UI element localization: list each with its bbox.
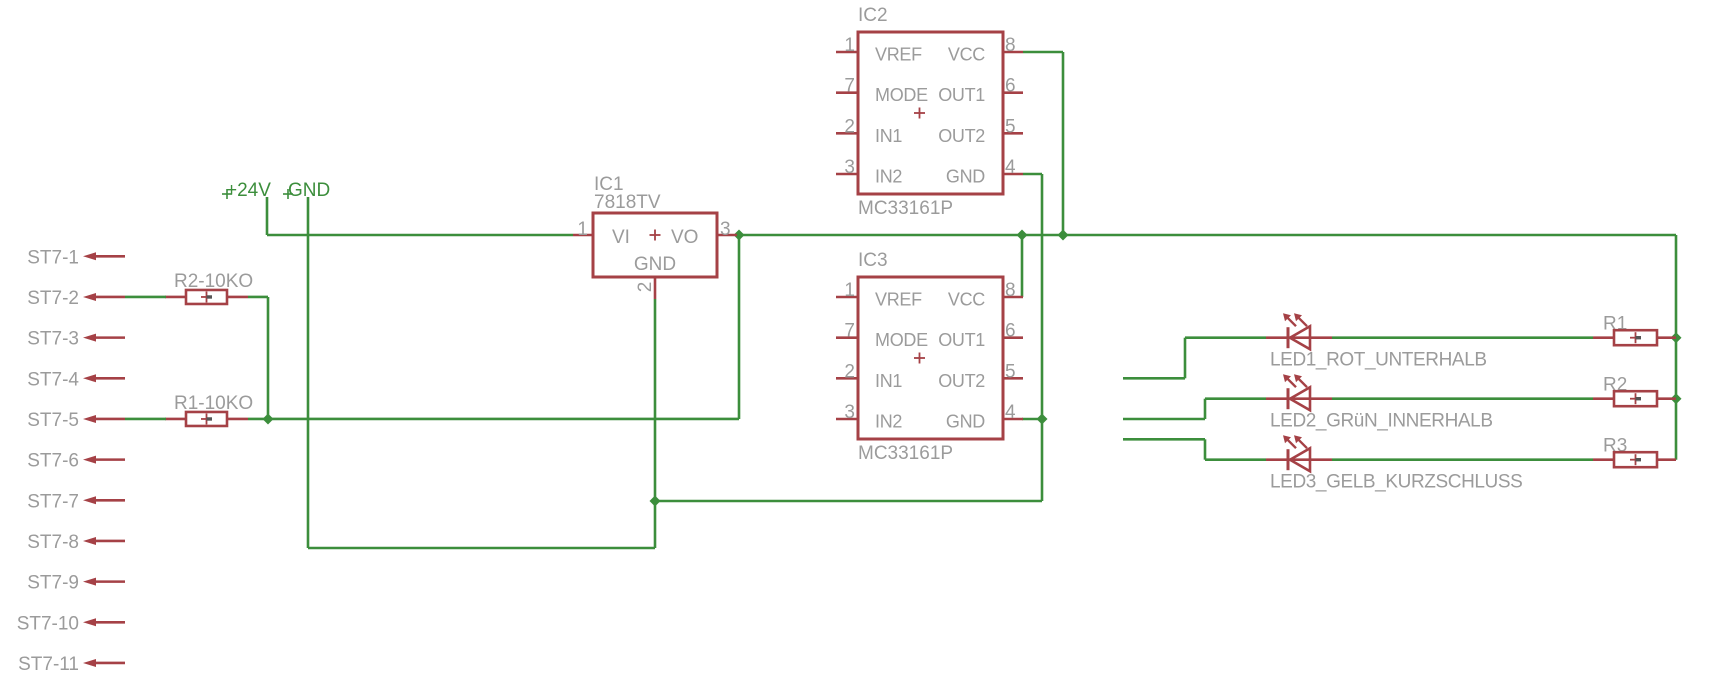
svg-text:+24V: +24V [226, 180, 271, 201]
svg-text:GND: GND [946, 167, 985, 187]
connector pin ST7-6 [27, 451, 125, 472]
IC3 pin 1 [836, 280, 858, 301]
wire right bus down [1675, 235, 1678, 460]
wire GND bottom run [308, 547, 655, 550]
connector pin ST7-11 [18, 654, 125, 675]
connector pin ST7-1 [27, 247, 125, 268]
wire LED3 stub [1123, 438, 1205, 441]
wire LED2 riser [1204, 399, 1207, 419]
wire riser to VO line [738, 235, 741, 419]
svg-text:ST7-7: ST7-7 [27, 491, 79, 512]
svg-text:4: 4 [1005, 157, 1016, 178]
svg-text:7818TV: 7818TV [594, 192, 661, 213]
wire R2 out [248, 296, 268, 299]
svg-text:ST7-9: ST7-9 [27, 573, 79, 594]
IC1 pin 3 [717, 219, 737, 240]
svg-text:ST7-3: ST7-3 [27, 329, 79, 350]
svg-text:ST7-8: ST7-8 [27, 532, 79, 553]
svg-text:2: 2 [844, 116, 855, 137]
wire LED2 stub [1123, 418, 1205, 421]
IC3 pin 4 [1003, 402, 1023, 423]
svg-text:4: 4 [1005, 402, 1016, 423]
svg-text:VREF: VREF [875, 45, 922, 65]
wire R1 out to IC3 column [248, 418, 739, 421]
IC2 pin 4 [1003, 157, 1023, 178]
wire IC2 VCC riser [1062, 52, 1065, 235]
IC IC2 MC33161P [858, 5, 1003, 219]
wire IC2 GND stub link [1023, 173, 1042, 176]
IC2 pin 7 [836, 76, 858, 97]
resistor R1 [1593, 314, 1676, 346]
svg-text:VCC: VCC [948, 290, 985, 310]
svg-text:VREF: VREF [875, 290, 922, 310]
svg-text:3: 3 [844, 157, 855, 178]
svg-text:1: 1 [844, 280, 855, 301]
wire LED1 stub [1123, 377, 1185, 380]
IC2 pin 1 [836, 35, 858, 56]
svg-text:8: 8 [1005, 35, 1016, 56]
wire LED1 to R1 [1332, 336, 1593, 339]
connector pin ST7-9 [27, 573, 125, 594]
svg-text:7: 7 [844, 76, 855, 97]
wire VO bus to right edge [737, 234, 1676, 237]
junction bus R1 [1671, 332, 1682, 343]
svg-text:GND: GND [634, 254, 676, 275]
svg-text:ST7-2: ST7-2 [27, 288, 79, 309]
wire LED2 to R2 [1332, 397, 1593, 400]
IC3 pin 6 [1003, 321, 1023, 342]
IC3 pin 8 [1003, 280, 1023, 301]
connector pin ST7-8 [27, 532, 125, 553]
resistor R2-10KO [165, 271, 253, 304]
junction IC2 VCC riser [1058, 230, 1069, 241]
IC2 pin 5 [1003, 116, 1023, 137]
wire +24V to IC1 VI [267, 234, 573, 237]
wire ST7-5 to R1 [125, 418, 166, 421]
svg-text:7: 7 [844, 321, 855, 342]
svg-text:3: 3 [844, 402, 855, 423]
svg-text:MODE: MODE [875, 330, 928, 350]
wire GND riser IC2 pin4 to branch [1041, 174, 1044, 501]
wire IC2 VCC over [1023, 51, 1063, 54]
connector pin ST7-5 [27, 410, 125, 431]
svg-text:IN2: IN2 [875, 167, 902, 187]
IC3 pin 2 [836, 361, 858, 382]
svg-text:OUT2: OUT2 [938, 126, 985, 146]
svg-text:VCC: VCC [948, 45, 985, 65]
junction bus R2 [1671, 393, 1682, 404]
IC3 pin 7 [836, 321, 858, 342]
IC3 pin 3 [836, 402, 858, 423]
IC1 pin 2 [635, 277, 656, 299]
svg-text:LED3_GELB_KURZSCHLUSS: LED3_GELB_KURZSCHLUSS [1270, 472, 1522, 493]
IC1 pin 1 [573, 219, 593, 240]
svg-text:ST7-11: ST7-11 [18, 654, 79, 675]
svg-text:ST7-5: ST7-5 [27, 410, 79, 431]
wire LED1 riser [1184, 338, 1187, 379]
svg-text:IC3: IC3 [858, 250, 888, 271]
svg-text:ST7-1: ST7-1 [27, 247, 79, 268]
svg-text:MODE: MODE [875, 85, 928, 105]
svg-text:ST7-10: ST7-10 [17, 613, 79, 634]
wire LED3 riser [1204, 439, 1207, 459]
svg-text:5: 5 [1005, 116, 1016, 137]
junction GND branch [650, 496, 661, 507]
resistor R1-10KO [165, 393, 253, 426]
wire to LED2 [1205, 397, 1266, 400]
IC3 pin 5 [1003, 361, 1023, 382]
svg-text:IN2: IN2 [875, 412, 902, 432]
wire GND up to IC1 pin2 [654, 299, 657, 548]
svg-text:1: 1 [844, 35, 855, 56]
wire LED3 to R3 [1332, 458, 1593, 461]
resistor R3 [1593, 436, 1676, 468]
junction at IC1 VO [734, 230, 745, 241]
connector pin ST7-7 [27, 491, 125, 512]
svg-text:6: 6 [1005, 321, 1016, 342]
svg-text:ST7-4: ST7-4 [27, 369, 79, 390]
wire IC3 VCC riser [1021, 235, 1024, 297]
LED LED1 (LED1_ROT_UNTERHALB) [1266, 313, 1487, 371]
LED LED2 (LED2_GRüN_INNERHALB) [1266, 374, 1493, 432]
junction IC3 VCC riser [1017, 230, 1028, 241]
wire GND branch right [655, 500, 1042, 503]
svg-text:6: 6 [1005, 76, 1016, 97]
svg-text:GND: GND [946, 412, 985, 432]
svg-text:OUT1: OUT1 [938, 330, 985, 350]
wire GND drop [307, 197, 310, 548]
LED LED3 (LED3_GELB_KURZSCHLUSS) [1266, 435, 1522, 493]
svg-text:5: 5 [1005, 361, 1016, 382]
wire to LED1 [1185, 336, 1266, 339]
IC2 pin 2 [836, 116, 858, 137]
IC IC3 MC33161P [858, 250, 1003, 464]
net label +24V [222, 180, 271, 201]
svg-text:OUT1: OUT1 [938, 85, 985, 105]
svg-text:VI: VI [612, 227, 630, 248]
svg-text:3: 3 [720, 219, 731, 240]
junction IC3 GND [1037, 414, 1048, 425]
wire to LED3 [1205, 458, 1266, 461]
connector pin ST7-10 [17, 613, 125, 634]
resistor R2 [1593, 375, 1676, 407]
IC2 pin 6 [1003, 76, 1023, 97]
svg-text:OUT2: OUT2 [938, 371, 985, 391]
IC2 pin 8 [1003, 35, 1023, 56]
wire R2 down to R1 row [267, 297, 270, 419]
IC2 pin 3 [836, 157, 858, 178]
svg-text:MC33161P: MC33161P [858, 443, 953, 464]
junction R2/R1 outputs [263, 413, 274, 424]
svg-text:2: 2 [844, 361, 855, 382]
net label GND [283, 180, 330, 201]
svg-text:8: 8 [1005, 280, 1016, 301]
svg-text:IN1: IN1 [875, 126, 902, 146]
svg-text:1: 1 [577, 219, 588, 240]
connector pin ST7-3 [27, 329, 125, 350]
svg-text:2: 2 [635, 282, 656, 293]
svg-text:IN1: IN1 [875, 371, 902, 391]
svg-text:ST7-6: ST7-6 [27, 451, 79, 472]
wire ST7-2 to R2 [125, 296, 166, 299]
svg-text:VO: VO [671, 227, 698, 248]
op-amp/regulator IC1 7818TV [593, 174, 717, 277]
connector pin ST7-2 [27, 288, 125, 309]
wire IC3 GND stub link [1022, 418, 1042, 421]
wire +24V drop [266, 197, 269, 235]
svg-text:MC33161P: MC33161P [858, 198, 953, 219]
connector pin ST7-4 [27, 369, 125, 390]
svg-text:LED2_GRüN_INNERHALB: LED2_GRüN_INNERHALB [1270, 411, 1493, 432]
svg-text:IC2: IC2 [858, 5, 888, 26]
svg-text:LED1_ROT_UNTERHALB: LED1_ROT_UNTERHALB [1270, 350, 1487, 371]
